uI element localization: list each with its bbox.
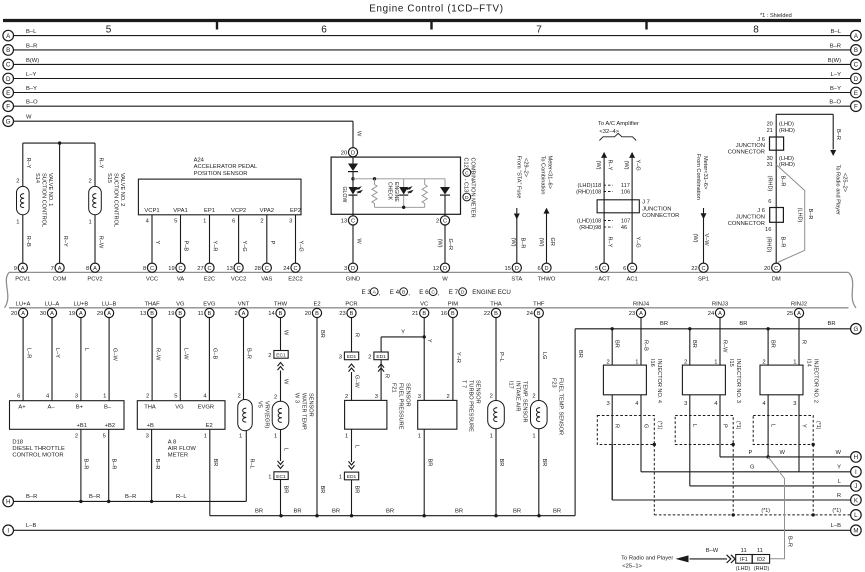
svg-text:PCR: PCR [345, 301, 357, 307]
svg-text:Y: Y [800, 424, 806, 428]
svg-text:C: C [630, 266, 634, 272]
svg-text:19: 19 [168, 311, 174, 317]
svg-text:CONTROL MOTOR: CONTROL MOTOR [12, 452, 63, 458]
svg-text:11: 11 [198, 311, 204, 317]
svg-text:Y–G: Y–G [298, 241, 304, 252]
svg-text:B: B [422, 311, 426, 317]
svg-text:BR: BR [577, 350, 583, 358]
svg-text:R–W: R–W [721, 340, 727, 353]
svg-text:A: A [58, 266, 62, 272]
svg-text:C: C [701, 266, 705, 272]
svg-text:1: 1 [490, 434, 493, 440]
svg-text:3: 3 [339, 355, 342, 361]
svg-text:W: W [283, 330, 289, 336]
svg-text:E 7: E 7 [449, 289, 459, 296]
svg-text:1: 1 [339, 475, 342, 481]
svg-text:L–W: L–W [183, 348, 189, 360]
svg-text:8: 8 [143, 266, 146, 272]
svg-text:D: D [854, 76, 859, 83]
svg-text:EP2: EP2 [290, 208, 301, 214]
svg-text:P: P [269, 241, 275, 245]
svg-text:15: 15 [505, 266, 511, 272]
svg-text:M: M [853, 528, 858, 535]
svg-text:5: 5 [103, 434, 106, 440]
svg-text:29: 29 [97, 311, 103, 317]
svg-text:E2C: E2C [204, 277, 215, 283]
svg-text:23: 23 [339, 311, 345, 317]
svg-text:CONNECTOR: CONNECTOR [728, 150, 765, 156]
svg-text:BR: BR [614, 340, 620, 348]
svg-text:JUNCTION: JUNCTION [642, 206, 671, 212]
svg-text:B: B [451, 311, 455, 317]
svg-text:BR: BR [426, 459, 432, 467]
svg-text:P: P [721, 424, 727, 428]
svg-text:ENGINE ECU: ENGINE ECU [472, 289, 511, 296]
svg-text:P–L: P–L [498, 352, 504, 362]
svg-text:B–O: B–O [26, 100, 38, 106]
svg-text:B: B [279, 311, 283, 317]
svg-text:INTAKE AIR: INTAKE AIR [515, 381, 521, 411]
svg-text:C: C [774, 266, 778, 272]
svg-text:BR: BR [455, 508, 463, 514]
svg-text:Y–G: Y–G [634, 237, 640, 248]
svg-text:LU+A: LU+A [16, 301, 31, 307]
svg-text:B–Y: B–Y [26, 86, 37, 92]
svg-text:STA: STA [511, 277, 522, 283]
svg-text:D: D [6, 76, 11, 83]
svg-text:C: C [207, 266, 211, 272]
svg-text:VALVE NO. 1: VALVE NO. 1 [47, 173, 53, 206]
svg-text:E2: E2 [313, 301, 320, 307]
svg-text:,: , [438, 290, 440, 297]
svg-text:B–: B– [104, 404, 112, 410]
svg-text:C: C [854, 62, 859, 69]
svg-text:ID2: ID2 [757, 557, 765, 563]
svg-text:R–B: R–B [642, 340, 648, 351]
svg-text:I14: I14 [806, 359, 812, 367]
svg-text:31: 31 [767, 162, 773, 168]
svg-text:T 7: T 7 [461, 380, 467, 388]
svg-text:2: 2 [75, 434, 78, 440]
svg-text:1: 1 [268, 474, 271, 480]
svg-text:TEMP. SENSOR: TEMP. SENSOR [522, 381, 528, 423]
svg-text:2: 2 [237, 393, 240, 399]
svg-text:B–R: B–R [786, 536, 792, 547]
svg-text:B: B [208, 311, 212, 317]
svg-text:C: C [237, 266, 241, 272]
svg-text:<25–1>: <25–1> [622, 564, 642, 570]
svg-text:B: B [537, 311, 541, 317]
svg-text:COM: COM [53, 277, 67, 283]
svg-text:VCP1: VCP1 [144, 208, 159, 214]
svg-text:A: A [21, 311, 25, 317]
svg-text:FUEL PRESSURE: FUEL PRESSURE [398, 383, 404, 430]
svg-text:B: B [150, 311, 154, 317]
svg-text:2: 2 [345, 394, 348, 400]
svg-text:(W): (W) [623, 161, 629, 170]
svg-text:(LHD): (LHD) [779, 156, 794, 162]
svg-text:(RHD)108: (RHD)108 [576, 189, 601, 195]
svg-text:A 8: A 8 [168, 439, 176, 445]
svg-text:A–: A– [47, 404, 55, 410]
svg-text:3: 3 [793, 401, 796, 407]
svg-text:(*1): (*1) [761, 508, 770, 514]
svg-text:A: A [639, 311, 643, 317]
svg-text:C13: C13 [463, 182, 469, 192]
svg-text:INJECTOR NO. 4: INJECTOR NO. 4 [656, 359, 662, 403]
svg-text:106: 106 [621, 189, 630, 195]
svg-text:20: 20 [764, 266, 770, 272]
svg-text:L–B: L–B [831, 523, 841, 529]
svg-text:(W): (W) [692, 234, 698, 243]
svg-text:(LHD)108: (LHD)108 [577, 218, 601, 224]
svg-text:F: F [854, 104, 858, 111]
svg-text:(RHD): (RHD) [754, 566, 769, 572]
svg-text:H: H [6, 499, 10, 506]
svg-text:L: L [83, 348, 89, 351]
svg-text:2: 2 [368, 355, 371, 361]
svg-text:12: 12 [433, 266, 439, 272]
svg-text:EC1: EC1 [276, 353, 286, 359]
svg-text:B: B [494, 311, 498, 317]
svg-text:F: F [6, 104, 10, 111]
svg-text:METER: METER [168, 452, 188, 458]
svg-text:22: 22 [691, 266, 697, 272]
svg-text:SUCTION CONTROL: SUCTION CONTROL [113, 173, 119, 227]
svg-text:R–Y: R–Y [97, 158, 103, 169]
svg-text:R–Y: R–Y [606, 160, 612, 171]
svg-text:(LHD): (LHD) [797, 208, 803, 223]
svg-text:R: R [383, 374, 389, 378]
svg-text:(*1): (*1) [735, 421, 741, 430]
svg-text:BR: BR [513, 508, 521, 514]
svg-text:THWO: THWO [538, 277, 556, 283]
svg-text:2: 2 [436, 219, 439, 225]
svg-text:VAS: VAS [261, 277, 272, 283]
svg-text:BR: BR [553, 508, 561, 514]
svg-text:From Combination: From Combination [695, 154, 701, 200]
svg-text:B–R: B–R [26, 494, 37, 500]
svg-text:THW: THW [274, 301, 288, 307]
svg-text:A: A [93, 266, 97, 272]
svg-text:3: 3 [289, 219, 292, 225]
svg-text:SUCTION CONTROL: SUCTION CONTROL [41, 173, 47, 227]
svg-text:P–B: P–B [183, 241, 189, 252]
svg-text:C: C [6, 62, 11, 69]
svg-text:,: , [408, 290, 410, 297]
svg-text:B–R: B–R [835, 129, 841, 140]
svg-text:(*1): (*1) [656, 421, 662, 430]
svg-text:(LHD)118: (LHD)118 [577, 183, 601, 189]
svg-text:2: 2 [234, 311, 237, 317]
svg-text:IF1: IF1 [740, 557, 748, 563]
svg-text:A: A [107, 311, 111, 317]
svg-text:VRV(EGR): VRV(EGR) [264, 401, 270, 428]
svg-text:J 6: J 6 [757, 137, 765, 143]
svg-text:25: 25 [787, 311, 793, 317]
svg-text:G–W: G–W [111, 348, 117, 361]
svg-text:Y: Y [154, 241, 160, 245]
svg-text:(RHD)98: (RHD)98 [579, 225, 601, 231]
svg-text:2: 2 [490, 394, 493, 400]
svg-text:(W): (W) [510, 238, 516, 247]
svg-text:JUNCTION: JUNCTION [736, 214, 765, 220]
svg-text:L: L [770, 424, 776, 427]
svg-text:+B: +B [147, 423, 154, 429]
svg-text:D: D [443, 266, 447, 272]
svg-text:R: R [614, 424, 620, 428]
svg-text:VCC: VCC [146, 277, 158, 283]
svg-text:VCC2: VCC2 [231, 277, 246, 283]
svg-text:1: 1 [532, 434, 535, 440]
svg-text:B–R: B–R [779, 237, 785, 248]
svg-text:L–Y: L–Y [54, 348, 60, 358]
svg-text:5: 5 [595, 266, 598, 272]
svg-text:To Radio and Player: To Radio and Player [621, 555, 673, 561]
svg-text:THF: THF [533, 301, 545, 307]
svg-text:B–R: B–R [830, 43, 841, 49]
svg-text:BR: BR [770, 340, 776, 348]
svg-text:*1 : Shielded: *1 : Shielded [760, 13, 792, 19]
svg-text:W 3: W 3 [294, 393, 300, 403]
svg-text:Y–R: Y–R [455, 352, 461, 363]
svg-text:5: 5 [174, 219, 177, 225]
svg-text:LU+B: LU+B [74, 301, 89, 307]
svg-text:VCP2: VCP2 [231, 208, 246, 214]
svg-text:21: 21 [767, 128, 773, 134]
svg-text:G–R: G–R [447, 239, 453, 251]
svg-text:PCV2: PCV2 [87, 277, 102, 283]
svg-text:B–R: B–R [779, 176, 785, 187]
svg-text:6: 6 [17, 393, 20, 399]
svg-text:Y–R: Y–R [212, 241, 218, 252]
svg-text:24: 24 [283, 266, 290, 272]
svg-text:2: 2 [260, 219, 263, 225]
svg-text:R: R [354, 333, 360, 337]
svg-text:THAF: THAF [145, 301, 161, 307]
svg-text:EP1: EP1 [204, 208, 215, 214]
svg-text:Meter<31–6>: Meter<31–6> [547, 156, 553, 189]
svg-text:C: C [431, 290, 435, 296]
svg-text:GR: GR [549, 238, 555, 246]
svg-text:E 4: E 4 [390, 289, 400, 296]
svg-text:POSITION SENSOR: POSITION SENSOR [194, 171, 248, 177]
svg-text:W: W [356, 239, 362, 245]
svg-text:EC1: EC1 [276, 474, 286, 480]
svg-text:Y: Y [837, 465, 841, 471]
svg-text:<25–2>: <25–2> [842, 173, 848, 192]
svg-text:(W): (W) [595, 161, 601, 170]
svg-text:6: 6 [537, 266, 540, 272]
svg-text:BR: BR [386, 508, 394, 514]
svg-text:P: P [748, 450, 752, 456]
svg-text:24: 24 [527, 311, 534, 317]
svg-text:2: 2 [532, 394, 535, 400]
svg-text:6: 6 [623, 266, 626, 272]
svg-text:C: C [293, 266, 297, 272]
svg-text:1: 1 [274, 434, 277, 440]
svg-text:R–Y: R–Y [606, 237, 612, 248]
svg-text:R–Y: R–Y [25, 158, 31, 169]
svg-text:VG: VG [176, 301, 185, 307]
svg-text:L: L [354, 445, 360, 448]
svg-text:+B1: +B1 [77, 423, 87, 429]
svg-text:Y–G: Y–G [241, 241, 247, 252]
svg-text:Y–G: Y–G [634, 160, 640, 171]
svg-text:L–R: L–R [25, 348, 31, 358]
svg-text:A: A [79, 311, 83, 317]
svg-text:D: D [544, 266, 548, 272]
svg-text:(W): (W) [437, 239, 443, 248]
svg-text:5: 5 [106, 25, 112, 36]
svg-text:<32–4>: <32–4> [599, 129, 619, 135]
svg-text:24: 24 [708, 311, 715, 317]
svg-text:19: 19 [69, 311, 75, 317]
svg-text:2: 2 [606, 359, 609, 365]
svg-text:B–R: B–R [154, 459, 160, 470]
svg-text:Y: Y [401, 330, 405, 336]
svg-text:RINJ2: RINJ2 [791, 301, 807, 307]
svg-text:28: 28 [255, 266, 261, 272]
svg-text:3: 3 [146, 434, 149, 440]
svg-text:2: 2 [446, 394, 449, 400]
svg-text:1: 1 [635, 359, 638, 365]
svg-text:E: E [854, 90, 858, 97]
svg-text:G: G [6, 119, 11, 126]
svg-text:BR: BR [255, 508, 263, 514]
svg-text:BR: BR [332, 508, 340, 514]
svg-text:SENSOR: SENSOR [405, 383, 411, 407]
svg-text:1: 1 [714, 359, 717, 365]
svg-text:R–W: R–W [154, 348, 160, 361]
svg-text:A: A [242, 311, 246, 317]
svg-text:PIM: PIM [448, 301, 458, 307]
svg-text:B–L: B–L [831, 29, 842, 35]
svg-text:GIND: GIND [346, 277, 361, 283]
svg-text:E2: E2 [206, 423, 213, 429]
svg-text:CHECK: CHECK [386, 182, 392, 201]
svg-text:E: E [6, 90, 10, 97]
svg-text:THA: THA [490, 301, 502, 307]
svg-text:(W): (W) [538, 238, 544, 247]
svg-text:117: 117 [621, 183, 630, 189]
svg-text:(LHD): (LHD) [736, 566, 751, 572]
svg-text:1: 1 [16, 219, 19, 225]
svg-text:F21: F21 [391, 383, 397, 393]
svg-text:30: 30 [767, 156, 773, 162]
svg-text:(RHD): (RHD) [779, 162, 795, 168]
svg-text:2: 2 [684, 359, 687, 365]
svg-text:AIR FLOW: AIR FLOW [168, 446, 197, 452]
svg-text:2: 2 [146, 393, 149, 399]
svg-text:19: 19 [168, 266, 174, 272]
svg-text:INJECTOR NO. 3: INJECTOR NO. 3 [735, 359, 741, 403]
svg-text:ACCELERATOR PEDAL: ACCELERATOR PEDAL [194, 164, 258, 170]
svg-text:A24: A24 [194, 158, 205, 164]
svg-text:D18: D18 [12, 439, 23, 445]
svg-text:B: B [178, 311, 182, 317]
svg-text:RINJ4: RINJ4 [633, 301, 650, 307]
svg-text:A: A [21, 266, 25, 272]
svg-text:CONNECTOR: CONNECTOR [728, 221, 765, 227]
svg-text:L: L [854, 512, 858, 519]
svg-text:B: B [315, 311, 319, 317]
svg-text:A: A [718, 311, 722, 317]
svg-text:46: 46 [621, 225, 627, 231]
svg-text:14: 14 [268, 311, 275, 317]
svg-text:D: D [351, 150, 355, 156]
svg-text:V–W: V–W [703, 234, 709, 247]
svg-text:C: C [265, 266, 269, 272]
svg-text:(*1): (*1) [832, 508, 841, 514]
svg-text:DIESEL THROTTLE: DIESEL THROTTLE [12, 446, 65, 452]
svg-text:3: 3 [606, 401, 609, 407]
svg-text:5: 5 [174, 393, 177, 399]
svg-text:Y: Y [426, 339, 432, 343]
svg-text:11: 11 [741, 548, 747, 554]
svg-text:20: 20 [11, 311, 17, 317]
svg-text:B–R: B–R [26, 43, 37, 49]
svg-text:VPA2: VPA2 [260, 208, 274, 214]
svg-text:6: 6 [321, 25, 327, 36]
svg-text:1: 1 [418, 434, 421, 440]
svg-text:E2C2: E2C2 [288, 277, 303, 283]
svg-text:B: B [350, 311, 354, 317]
svg-text:I: I [7, 528, 9, 535]
svg-text:B(W): B(W) [26, 58, 39, 64]
svg-text:13: 13 [226, 266, 232, 272]
svg-text:J 6: J 6 [757, 208, 765, 214]
svg-text:2: 2 [16, 178, 19, 184]
svg-text:W: W [283, 379, 289, 385]
svg-text:BR: BR [212, 459, 218, 467]
svg-text:W: W [442, 277, 448, 283]
svg-text:3: 3 [418, 394, 421, 400]
svg-text:WATER TEMP.: WATER TEMP. [301, 393, 307, 431]
svg-text:(RHD): (RHD) [766, 237, 772, 253]
svg-text:BR: BR [293, 508, 301, 514]
svg-text:G: G [642, 424, 648, 428]
svg-text:LU–A: LU–A [45, 301, 60, 307]
svg-text:1: 1 [204, 434, 207, 440]
svg-text:To Combination: To Combination [540, 156, 546, 195]
svg-text:R–W: R–W [97, 236, 103, 249]
svg-text:L: L [283, 448, 289, 451]
svg-text:J: J [854, 483, 857, 490]
svg-text:1: 1 [793, 359, 796, 365]
svg-text:To A/C Amplifier: To A/C Amplifier [598, 121, 639, 127]
svg-text:ACT: ACT [598, 277, 610, 283]
svg-text:(LHD): (LHD) [779, 122, 794, 128]
svg-text:BR: BR [319, 486, 325, 494]
svg-text:VC: VC [420, 301, 428, 307]
svg-text:B–R: B–R [125, 494, 136, 500]
svg-text:3: 3 [684, 401, 687, 407]
svg-text:ENGINE: ENGINE [393, 182, 399, 202]
svg-text:20: 20 [767, 122, 773, 128]
svg-text:B–R: B–R [520, 238, 526, 249]
svg-text:LG: LG [541, 352, 547, 359]
svg-text:23: 23 [629, 311, 635, 317]
svg-text:H: H [854, 454, 858, 461]
svg-text:6: 6 [232, 219, 235, 225]
svg-text:L: L [691, 424, 697, 427]
svg-text:6: 6 [768, 199, 771, 205]
svg-text:JUNCTION: JUNCTION [736, 143, 765, 149]
svg-text:1: 1 [345, 434, 348, 440]
svg-text:1: 1 [239, 434, 242, 440]
svg-text:C: C [443, 219, 447, 225]
